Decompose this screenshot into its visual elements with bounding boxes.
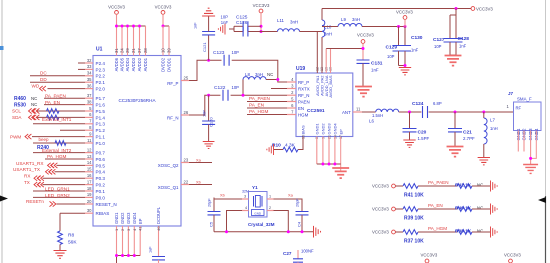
svg-text:P1.2: P1.2 xyxy=(96,128,106,133)
capacitor C21 2.7PF xyxy=(454,112,456,129)
svg-text:VCC3V3: VCC3V3 xyxy=(421,253,438,258)
svg-text:18: 18 xyxy=(87,186,92,191)
crystal pin 4 xyxy=(242,210,249,212)
junction xyxy=(121,254,124,257)
resistor R41 10K xyxy=(403,184,418,189)
capacitor C5 20pF xyxy=(208,212,221,215)
svg-text:CC2591: CC2591 xyxy=(307,108,325,114)
wire U1 pin 35 P2.1 xyxy=(30,81,85,83)
svg-text:DCOUPL: DCOUPL xyxy=(156,206,161,224)
svg-text:NC: NC xyxy=(31,102,37,107)
svg-text:DVDD2: DVDD2 xyxy=(161,57,166,72)
svg-text:L6: L6 xyxy=(369,119,374,124)
svg-text:2: 2 xyxy=(269,206,271,210)
pin 33 stub xyxy=(85,68,93,70)
wire U1 pin 19 P0.0 xyxy=(33,196,85,198)
svg-text:AVDD2: AVDD2 xyxy=(137,57,142,71)
resistor R53 on SDA xyxy=(47,115,59,120)
wire RF_N to C122 xyxy=(189,95,220,115)
wire U1 pin 11 P1.0 xyxy=(33,142,85,144)
svg-text:1.5PF: 1.5PF xyxy=(418,136,430,141)
svg-text:PA_EN: PA_EN xyxy=(428,203,443,208)
svg-text:RF_P: RF_P xyxy=(298,80,309,85)
junction xyxy=(482,111,485,114)
wire U1 pin 36 P2.0 xyxy=(48,88,86,90)
svg-text:SCL: SCL xyxy=(12,109,21,114)
capacitor C20 1.5PF xyxy=(409,112,411,129)
op U19 CC2591 body xyxy=(296,73,353,137)
ground left of R10 xyxy=(267,144,274,155)
svg-text:RF: RF xyxy=(516,106,522,111)
svg-text:1.5nH: 1.5nH xyxy=(372,113,383,118)
left border blue tick xyxy=(0,46,4,50)
svg-text:PAEN: PAEN xyxy=(298,99,310,104)
svg-text:32: 32 xyxy=(87,58,92,63)
svg-text:DVDD1: DVDD1 xyxy=(167,57,172,72)
junction xyxy=(115,254,118,257)
wire U1 pin 21 AVDD3 xyxy=(133,26,135,56)
pin U19 15 BIAS wire xyxy=(298,137,303,150)
svg-text:C131: C131 xyxy=(371,61,383,67)
svg-text:R530: R530 xyxy=(14,102,26,108)
svg-text:C20: C20 xyxy=(418,130,427,136)
svg-text:P2.4: P2.4 xyxy=(96,61,106,66)
svg-text:AVDD1: AVDD1 xyxy=(143,57,148,71)
svg-text:P2.3: P2.3 xyxy=(96,67,106,72)
junction xyxy=(276,78,279,81)
wire C123 to U19 RF_P xyxy=(232,60,287,82)
ground below R8 xyxy=(54,251,67,259)
wire U1 ground bus xyxy=(117,255,141,257)
svg-text:EP: EP xyxy=(338,129,343,135)
svg-text:P0.7: P0.7 xyxy=(96,151,106,156)
svg-text:6: 6 xyxy=(89,112,92,117)
svg-text:8: 8 xyxy=(89,125,92,130)
ground right of crystal bus xyxy=(314,226,321,238)
junction xyxy=(162,25,165,28)
pin 14 stub xyxy=(85,164,93,166)
crystal pin 2 xyxy=(267,210,274,212)
svg-text:7: 7 xyxy=(89,119,92,124)
sheet left border xyxy=(1,0,3,263)
ground below C131 xyxy=(355,87,372,97)
wire U1 pin 9 P1.1 xyxy=(32,136,85,138)
svg-text:C126: C126 xyxy=(236,20,248,26)
svg-text:RESETn: RESETn xyxy=(26,199,44,204)
svg-text:Xa: Xa xyxy=(288,193,294,198)
svg-text:3nH: 3nH xyxy=(352,17,360,22)
svg-text:VCC3V3: VCC3V3 xyxy=(396,10,413,15)
junction C120 tap xyxy=(207,94,210,97)
wire L8 left leg xyxy=(242,80,244,96)
svg-text:10P: 10P xyxy=(387,54,395,59)
svg-text:1nF: 1nF xyxy=(459,44,467,49)
pin U1 22 XOSC_Q1 xyxy=(181,184,189,186)
junction xyxy=(404,64,407,67)
junction xyxy=(287,230,290,233)
ground right of R40 xyxy=(491,203,498,214)
wire U1 pin 8 P1.2 xyxy=(60,129,85,131)
wire U1 pin 34 P2.2 xyxy=(30,75,85,77)
svg-text:20: 20 xyxy=(87,199,92,204)
junction xyxy=(455,7,458,10)
wire U1 pin 31 AVDD6 xyxy=(116,26,118,56)
wire U1 pin 7 P1.3 xyxy=(33,123,85,125)
ground below L7 xyxy=(478,158,490,165)
wire RF_P to C123 xyxy=(189,60,222,80)
svg-text:P0.1: P0.1 xyxy=(96,189,106,194)
svg-text:C123: C123 xyxy=(213,50,225,56)
wire XOSC_Q2 net Xa xyxy=(189,162,212,164)
svg-text:10P: 10P xyxy=(221,15,229,20)
svg-text:USART1_TX: USART1_TX xyxy=(13,167,41,172)
wire L6 to C124 xyxy=(399,111,422,113)
svg-text:External_INT2: External_INT2 xyxy=(42,148,72,153)
svg-text:P0.4: P0.4 xyxy=(96,170,106,175)
wire U19 EP pin xyxy=(340,137,342,172)
svg-text:NC: NC xyxy=(477,228,483,233)
svg-text:P1.4: P1.4 xyxy=(96,115,106,120)
wire DVDD bus xyxy=(163,25,169,27)
wire U1 pin 13 P0.6 xyxy=(45,158,85,160)
svg-text:NC: NC xyxy=(477,205,483,210)
junction xyxy=(127,254,130,257)
pin 15 stub xyxy=(85,171,93,173)
ground below J7 xyxy=(523,165,538,174)
svg-text:20pF: 20pF xyxy=(208,198,212,207)
pin 32 stub xyxy=(85,62,93,64)
svg-text:1nF: 1nF xyxy=(411,48,419,53)
svg-text:P1.5: P1.5 xyxy=(96,109,106,114)
svg-text:C125: C125 xyxy=(236,15,248,21)
svg-text:P0.0: P0.0 xyxy=(96,195,106,200)
pin 5 stub xyxy=(85,110,93,112)
pin U1 26 RF_N xyxy=(181,114,189,116)
svg-text:R39 10K: R39 10K xyxy=(404,215,424,221)
svg-text:R41 10K: R41 10K xyxy=(404,192,424,198)
svg-text:20pF: 20pF xyxy=(296,198,300,207)
capacitor C121 1nF to upper ground xyxy=(208,35,210,60)
svg-text:25: 25 xyxy=(184,75,189,80)
svg-text:P2.0: P2.0 xyxy=(96,87,106,92)
wire U1 pin 12 P0.7 xyxy=(33,152,85,154)
svg-text:Xb: Xb xyxy=(196,180,201,185)
svg-text:RX: RX xyxy=(24,174,30,179)
svg-text:AVDD4: AVDD4 xyxy=(125,57,130,71)
svg-text:BIAS: BIAS xyxy=(301,125,306,134)
svg-text:RBIAS: RBIAS xyxy=(96,211,110,216)
svg-text:10P: 10P xyxy=(232,50,240,55)
svg-text:1nF: 1nF xyxy=(221,20,229,25)
wire U1 pin 38 P1.6 xyxy=(44,104,85,106)
svg-text:16: 16 xyxy=(87,173,92,178)
wire U1 pin 39 DVDD1 xyxy=(168,26,170,56)
ground above C121 (inverted) xyxy=(202,8,215,16)
svg-text:P0.5: P0.5 xyxy=(96,163,106,168)
svg-text:2.7PF: 2.7PF xyxy=(463,136,475,141)
svg-text:Xb: Xb xyxy=(220,193,225,198)
svg-text:RF_N: RF_N xyxy=(298,93,309,98)
svg-text:GND4: GND4 xyxy=(132,212,137,224)
svg-text:VCC3V3: VCC3V3 xyxy=(372,207,389,212)
svg-text:XOSC_Q2: XOSC_Q2 xyxy=(158,163,179,168)
svg-text:10P: 10P xyxy=(232,85,240,90)
pin U19 4 RF_P xyxy=(287,81,296,83)
svg-text:R38 1K: R38 1K xyxy=(455,228,472,234)
ground below U19 xyxy=(332,168,349,178)
wire U1 pin 29 AVDD4 xyxy=(127,26,129,56)
wire U1 pin 1 GND1 xyxy=(116,226,118,256)
capacitor C4 20pF xyxy=(296,212,309,215)
svg-text:P2.1: P2.1 xyxy=(96,80,106,85)
junction xyxy=(321,163,324,166)
wire L8 right leg xyxy=(266,79,278,81)
svg-text:P1.1: P1.1 xyxy=(96,135,106,140)
svg-text:ANT: ANT xyxy=(342,110,351,115)
pin 20 stub xyxy=(85,203,93,205)
pin 13 stub xyxy=(85,158,93,160)
svg-text:CC2530F256RHA: CC2530F256RHA xyxy=(118,98,156,103)
svg-text:PA_PAEN: PA_PAEN xyxy=(428,180,449,185)
wire C124 to J7 xyxy=(429,111,514,113)
svg-text:VCC3V3: VCC3V3 xyxy=(372,230,389,235)
wire U1 pin 32 P2.4 xyxy=(78,62,85,64)
svg-text:GND: GND xyxy=(254,211,262,215)
junction xyxy=(132,25,135,28)
pin 17 stub xyxy=(85,184,93,186)
svg-text:12: 12 xyxy=(87,147,92,152)
resistor R240 on P1.0 xyxy=(55,141,66,146)
svg-text:R8: R8 xyxy=(68,233,74,239)
svg-text:GND4: GND4 xyxy=(333,123,338,135)
wire RBIAS to R8 xyxy=(59,213,61,231)
svg-text:DD: DD xyxy=(40,77,47,82)
wire RXTX stub xyxy=(271,88,287,90)
wire L10 to AVDD_PA2 xyxy=(321,37,323,73)
svg-text:14: 14 xyxy=(87,160,92,165)
svg-text:RXTX: RXTX xyxy=(298,86,310,91)
pin 37 stub xyxy=(85,97,93,99)
svg-text:P0.3: P0.3 xyxy=(96,176,106,181)
wire U1 pin 28 AVDD1 xyxy=(145,26,147,56)
svg-text:P1.0: P1.0 xyxy=(96,141,106,146)
junction xyxy=(333,163,336,166)
wire AVDD_BIAS riser xyxy=(330,49,332,74)
svg-text:PA_HGM: PA_HGM xyxy=(249,109,269,114)
svg-text:35: 35 xyxy=(87,77,92,82)
svg-text:C127: C127 xyxy=(433,37,445,43)
svg-text:EN: EN xyxy=(298,106,304,111)
svg-text:26: 26 xyxy=(184,110,189,115)
svg-text:GND3: GND3 xyxy=(327,123,332,135)
svg-text:6.8P: 6.8P xyxy=(433,101,442,106)
svg-text:R37 10K: R37 10K xyxy=(404,238,424,244)
wire top VCC rail xyxy=(322,8,471,10)
svg-text:10P: 10P xyxy=(202,110,206,117)
svg-text:10P: 10P xyxy=(434,44,442,49)
inductor L6 1.5nH xyxy=(362,111,376,113)
wire U19 GND pins to bus xyxy=(316,137,318,165)
ground below C21 xyxy=(447,147,464,157)
wire U1 pin 33 P2.3 xyxy=(78,68,85,70)
svg-text:LED_GRN2: LED_GRN2 xyxy=(45,193,70,198)
svg-text:GND2: GND2 xyxy=(120,212,125,224)
svg-text:GND2: GND2 xyxy=(321,123,326,135)
svg-text:L7: L7 xyxy=(490,118,495,123)
svg-text:Xa: Xa xyxy=(196,158,202,163)
ground left of C125 xyxy=(218,23,225,34)
junction xyxy=(362,47,365,50)
pin U19 11 ANT xyxy=(353,111,362,113)
svg-text:37: 37 xyxy=(87,93,92,98)
pin U1 25 RF_P xyxy=(181,80,189,82)
pin 35 stub xyxy=(85,81,93,83)
svg-text:AVDD5: AVDD5 xyxy=(120,57,125,71)
svg-text:R42 1K: R42 1K xyxy=(455,182,472,188)
pin 8 stub xyxy=(85,129,93,131)
svg-text:C130: C130 xyxy=(411,35,423,41)
ground below C20 xyxy=(403,140,415,147)
svg-text:VCC3V3: VCC3V3 xyxy=(253,3,270,8)
resistor R8 56K xyxy=(58,231,63,245)
svg-text:VCC3V3: VCC3V3 xyxy=(504,253,521,258)
svg-text:10: 10 xyxy=(160,48,165,53)
resistor R42 1K NC xyxy=(457,184,472,189)
svg-text:3: 3 xyxy=(291,84,294,89)
svg-text:PA_HGM: PA_HGM xyxy=(47,154,67,159)
wire crystal pin1 to C4 xyxy=(274,199,303,212)
pin 6 stub xyxy=(85,116,93,118)
resistor R39 10K xyxy=(403,207,418,212)
svg-text:GND1: GND1 xyxy=(114,212,119,224)
svg-text:24: 24 xyxy=(119,48,124,53)
wire U1 pin 6 P1.4 xyxy=(36,116,85,118)
svg-text:Y1: Y1 xyxy=(252,185,258,190)
svg-text:RF_P: RF_P xyxy=(167,81,178,86)
svg-text:29: 29 xyxy=(125,48,130,53)
svg-text:P1.3: P1.3 xyxy=(96,122,106,127)
svg-text:2: 2 xyxy=(291,90,294,95)
pin 9 stub xyxy=(85,136,93,138)
svg-text:VCC3V3: VCC3V3 xyxy=(155,5,172,10)
svg-text:11: 11 xyxy=(356,107,361,112)
svg-text:R460: R460 xyxy=(14,96,26,102)
svg-text:C122: C122 xyxy=(214,85,226,91)
svg-text:VCC3V3: VCC3V3 xyxy=(372,184,389,189)
junction xyxy=(115,25,118,28)
wire U1 pin 37 P1.7 xyxy=(44,97,85,99)
power VCC3V3 port top right xyxy=(471,7,475,11)
svg-text:NC: NC xyxy=(267,72,273,77)
svg-text:VCC3V3: VCC3V3 xyxy=(357,33,374,38)
inductor L7 1nH vertical xyxy=(483,112,485,118)
svg-text:GND3: GND3 xyxy=(126,212,131,224)
pin 30 stub xyxy=(85,212,93,214)
pin U19 5 PAEN xyxy=(287,101,296,103)
junction xyxy=(301,230,304,233)
svg-text:NC: NC xyxy=(477,182,483,187)
svg-text:NC: NC xyxy=(31,96,37,101)
svg-text:PA_EN: PA_EN xyxy=(45,100,60,105)
op U1 CC2530F256RHA body xyxy=(93,56,181,227)
svg-text:U1: U1 xyxy=(96,47,103,53)
svg-text:3: 3 xyxy=(244,195,246,199)
junction xyxy=(454,111,457,114)
svg-text:1: 1 xyxy=(507,104,510,109)
svg-text:P1.7: P1.7 xyxy=(96,96,106,101)
junction xyxy=(242,94,245,97)
pin U19 6 EN xyxy=(287,107,296,109)
junction xyxy=(260,25,263,28)
resistor R37 10K xyxy=(403,230,418,235)
resistor R38 1K NC xyxy=(457,230,472,235)
svg-text:P1.6: P1.6 xyxy=(96,103,106,108)
svg-text:WD: WD xyxy=(32,84,40,89)
svg-text:1nF: 1nF xyxy=(194,22,198,29)
pin U1 23 XOSC_Q2 xyxy=(181,162,189,164)
svg-text:32M: 32M xyxy=(242,190,249,194)
wire U1 pin 3 GND3 xyxy=(127,226,129,256)
svg-text:C27: C27 xyxy=(283,251,292,256)
wire crystal ground bus xyxy=(214,231,313,233)
svg-text:TX: TX xyxy=(24,180,30,185)
svg-text:19: 19 xyxy=(87,192,92,197)
svg-text:PA_PAEN: PA_PAEN xyxy=(249,96,270,101)
junction xyxy=(328,163,331,166)
wire U1 pin 18 P0.1 xyxy=(33,190,85,192)
svg-text:28: 28 xyxy=(143,48,148,53)
pin 18 stub xyxy=(85,190,93,192)
crystal pin 1 xyxy=(267,198,274,200)
svg-text:17: 17 xyxy=(87,179,92,184)
svg-text:1nF: 1nF xyxy=(371,68,379,73)
svg-text:VCC3V3: VCC3V3 xyxy=(108,5,125,10)
ground below C129/C130 xyxy=(399,68,411,75)
svg-text:21: 21 xyxy=(131,48,136,53)
wire U1 pin 40 DCOUPL xyxy=(158,226,160,257)
pin 36 stub xyxy=(85,88,93,90)
svg-text:7: 7 xyxy=(291,110,294,115)
wire U1 pin 27 AVDD2 xyxy=(139,26,141,56)
wire J7 GND3 to ground xyxy=(530,131,532,165)
svg-text:C121: C121 xyxy=(202,42,207,52)
ground right of R42 xyxy=(491,180,498,191)
svg-text:4: 4 xyxy=(245,206,247,210)
junction xyxy=(260,30,263,33)
sheet right border xyxy=(545,0,547,263)
svg-text:P0.2: P0.2 xyxy=(96,183,106,188)
wire AVDD rail to VCC and C131 xyxy=(326,48,363,50)
wire L9 to C129/C130 xyxy=(362,26,405,28)
svg-text:SMA_F: SMA_F xyxy=(517,97,532,102)
junction xyxy=(404,25,407,28)
svg-text:Crystal_32M: Crystal_32M xyxy=(248,222,275,227)
svg-text:40: 40 xyxy=(156,226,161,231)
wire AVDD_PA1 riser xyxy=(316,32,318,74)
left border arrow xyxy=(0,196,8,202)
wire U1 pin 20 RESET_N xyxy=(57,203,86,205)
resistor R40 1K NC xyxy=(457,207,472,212)
wire AVDD bus xyxy=(117,25,146,27)
svg-text:HGM: HGM xyxy=(298,112,309,117)
svg-text:PA_HGM: PA_HGM xyxy=(428,226,447,231)
wire U1 pin 24 AVDD5 xyxy=(121,26,123,56)
svg-text:15: 15 xyxy=(87,167,92,172)
svg-text:LED_GRN1: LED_GRN1 xyxy=(45,186,70,191)
wire U1 pin 30 RBIAS xyxy=(60,212,85,214)
svg-text:1uF: 1uF xyxy=(149,246,153,253)
wire J7 GND4 to ground xyxy=(531,131,537,159)
